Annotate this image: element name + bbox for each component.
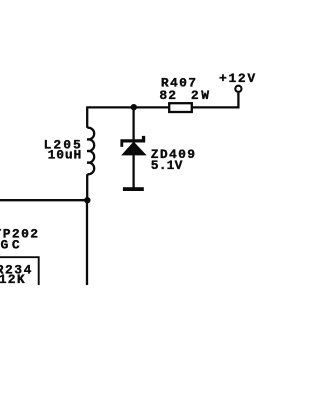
svg-text:10uH: 10uH <box>48 148 83 163</box>
wire: zener bottom lead <box>132 155 134 188</box>
wire: top bus left segment (L205 corner to R407 left lead) <box>87 106 168 108</box>
zener ZD409 triangle (anode, apex up) <box>121 142 147 156</box>
wire: zener top lead from junction <box>132 107 134 139</box>
resistor R407 body <box>169 103 192 112</box>
svg-text:2W: 2W <box>191 88 210 103</box>
svg-text:82: 82 <box>159 88 176 103</box>
wire: vertical below bottom-left junction <box>86 200 88 285</box>
wire: bottom-left horizontal to junction <box>0 199 87 201</box>
zener ZD409 bottom terminal bar <box>123 187 144 191</box>
svg-text:5.1V: 5.1V <box>151 158 183 173</box>
terminal +12V circle <box>235 86 241 92</box>
wire: left vertical above inductor <box>86 106 88 127</box>
resistor R234 box (partial, cropped at left/bottom) <box>0 257 39 285</box>
wire: top bus right segment (R407 right lead to +12V riser corner) <box>193 106 240 108</box>
node: junction dot at zener top <box>131 104 137 110</box>
wire: left vertical below inductor <box>86 174 88 200</box>
zener ZD409 cathode bar with hooks <box>120 136 145 147</box>
svg-text:12K: 12K <box>0 272 25 287</box>
inductor L205 coil <box>87 128 94 175</box>
node: junction dot bottom-left <box>84 197 90 203</box>
svg-text:+12V: +12V <box>219 71 256 86</box>
wire: +12V riser (terminal down to top bus) <box>237 92 239 108</box>
